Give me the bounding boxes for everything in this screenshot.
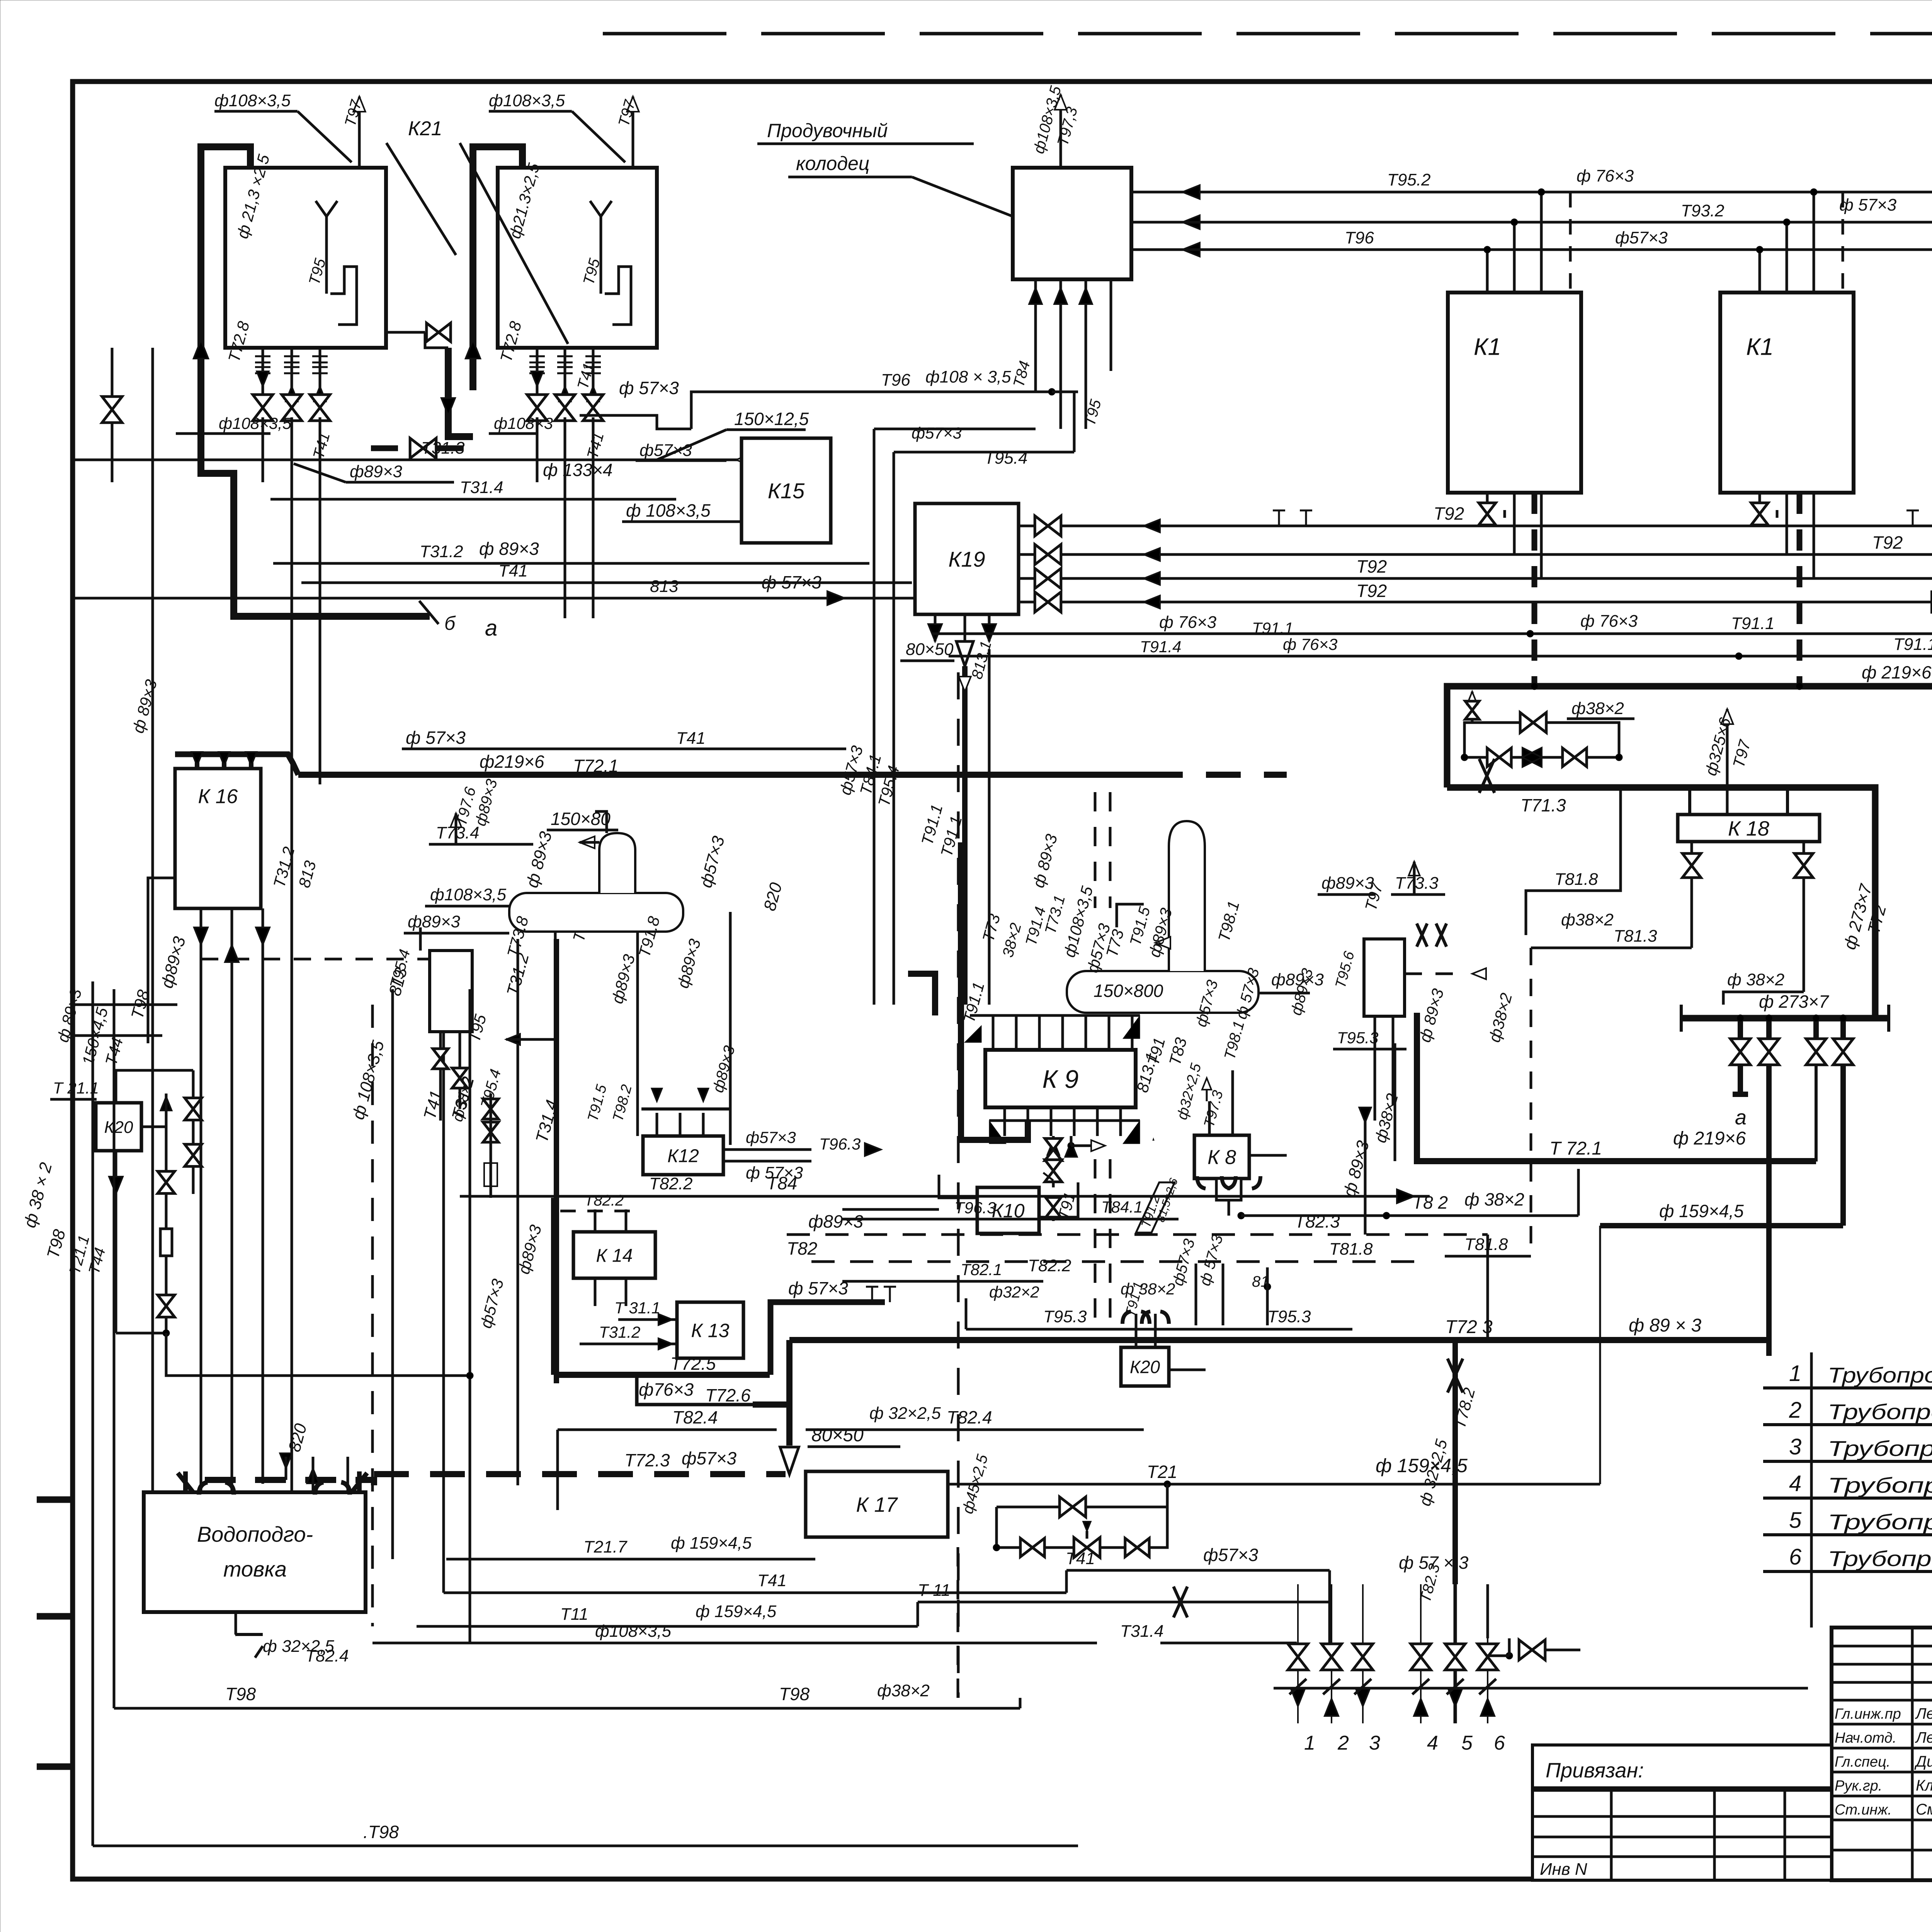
svg-text:3: 3 — [1369, 1732, 1380, 1754]
well feed — [1085, 279, 1087, 429]
svg-text:Т91.4: Т91.4 — [1140, 638, 1181, 656]
svg-text:ф89×3: ф89×3 — [350, 462, 402, 481]
svg-text:ф108×3: ф108×3 — [494, 414, 553, 432]
svg-text:5: 5 — [1789, 1508, 1802, 1533]
bypass K17 top — [997, 1506, 1167, 1509]
thick pipe f21.3 left boiler — [201, 147, 430, 616]
leader f108 — [622, 520, 742, 523]
box vodopodgotovka — [144, 1492, 366, 1612]
vertical T41 — [442, 989, 445, 1593]
K18 right riser — [1786, 787, 1789, 815]
svg-text:Т92: Т92 — [1356, 556, 1387, 577]
svg-text:Водоподго-: Водоподго- — [197, 1522, 313, 1546]
central dashed vertical — [957, 672, 960, 1698]
svg-text:Нач.отд.: Нач.отд. — [1835, 1730, 1896, 1746]
valve column under K9 — [1052, 1136, 1055, 1187]
header T92 #1 — [1019, 525, 1932, 527]
thick vertical to funnel — [786, 1340, 793, 1446]
svg-text:Смирнова: Смирнова — [1916, 1801, 1932, 1818]
dashed drop — [1530, 948, 1532, 1256]
legend row 4 underline — [1763, 1497, 1932, 1500]
boiler1 drop — [319, 348, 321, 417]
svg-text:Т91.1: Т91.1 — [1893, 635, 1932, 654]
left vertical — [113, 989, 116, 1708]
svg-text:Трубопровод циркуляции горяч: Трубопровод циркуляции горячего водоснаб… — [1828, 1400, 1932, 1424]
svg-text:Т96: Т96 — [881, 371, 910, 389]
svg-text:Т95.2: Т95.2 — [1387, 170, 1431, 189]
vertical T31.2 — [469, 989, 471, 1643]
box K17 — [806, 1471, 948, 1537]
thick T72.5 — [554, 1372, 770, 1378]
legend row 3 underline — [1763, 1460, 1932, 1463]
thick line to K18 — [1447, 784, 1787, 791]
thick drop f273x7 T72 — [1787, 787, 1875, 1018]
svg-text:Т31.4: Т31.4 — [460, 478, 503, 497]
svg-text:Т82.4: Т82.4 — [947, 1407, 992, 1427]
svg-text:Клоков: Клоков — [1916, 1777, 1932, 1794]
svg-text:ф 159×4,5: ф 159×4,5 — [1659, 1201, 1744, 1221]
svg-text:Продувочный: Продувочный — [767, 120, 888, 141]
fold mark — [37, 1764, 73, 1770]
boiler1 drop — [291, 348, 293, 417]
svg-text:Ст.инж.: Ст.инж. — [1835, 1802, 1892, 1818]
box K19 — [915, 503, 1019, 614]
K9 bottom stub — [1096, 1107, 1099, 1136]
svg-text:Трубопровод горячей воды к: Трубопровод горячей воды к потребителю ф… — [1828, 1363, 1932, 1387]
svg-text:Дигин: Дигин — [1914, 1753, 1932, 1770]
deaerator tank left (150x80) — [509, 893, 683, 932]
svg-text:ф 76×3: ф 76×3 — [1159, 613, 1217, 632]
bypass loop bottom — [1464, 756, 1619, 759]
svg-text:Рук.гр.: Рук.гр. — [1835, 1778, 1882, 1794]
svg-text:ф 57 × 3: ф 57 × 3 — [1399, 1553, 1469, 1573]
svg-text:1: 1 — [1304, 1732, 1315, 1754]
svg-text:К 14: К 14 — [596, 1245, 633, 1266]
svg-text:Т84.1: Т84.1 — [1101, 1198, 1143, 1216]
svg-text:Т 11: Т 11 — [918, 1581, 951, 1600]
svg-text:Т 72.1: Т 72.1 — [1549, 1138, 1602, 1159]
svg-text:ф108 × 3,5: ф108 × 3,5 — [925, 367, 1011, 386]
left stub to K16 — [73, 1003, 177, 1006]
svg-text:К15: К15 — [768, 479, 805, 503]
K9 bottom stub — [1050, 1107, 1053, 1136]
svg-text:ф 76×3: ф 76×3 — [1580, 612, 1638, 631]
riser 6 — [1487, 1584, 1488, 1723]
svg-text:К 8: К 8 — [1207, 1146, 1236, 1169]
svg-text:Т93.2: Т93.2 — [1681, 201, 1725, 220]
riser 2 — [1331, 1584, 1332, 1723]
K16 top thick manifold — [175, 754, 298, 775]
svg-text:ф89×3: ф89×3 — [808, 1211, 863, 1231]
svg-text:К12: К12 — [667, 1146, 699, 1166]
line T82.1 — [842, 1280, 1043, 1283]
K1 dashed stub — [1569, 192, 1572, 293]
K9 bottom stub — [1073, 1107, 1076, 1136]
thick riser left of K13 — [551, 1198, 557, 1375]
link T72.6 — [637, 1375, 753, 1405]
K9 top stub — [1085, 1015, 1087, 1050]
vertical — [517, 939, 519, 1485]
svg-text:Т81.3: Т81.3 — [1614, 927, 1657, 946]
svg-text:813: 813 — [650, 577, 679, 596]
heat exchanger — [430, 951, 472, 1032]
svg-text:a: a — [1735, 1106, 1747, 1129]
svg-text:Т98: Т98 — [225, 1684, 256, 1704]
svg-text:ф108×3,5: ф108×3,5 — [595, 1622, 672, 1641]
box K10 — [977, 1187, 1039, 1233]
svg-text:Т82.4: Т82.4 — [672, 1407, 718, 1427]
svg-text:Т71.3: Т71.3 — [1520, 795, 1566, 815]
svg-text:Трубопровод обратной сетево: Трубопровод обратной сетевой воды ф 159×… — [1828, 1473, 1932, 1497]
vent line T97 — [358, 97, 361, 168]
svg-text:ф 38×2: ф 38×2 — [1727, 970, 1784, 989]
dashed pipe — [371, 446, 410, 451]
svg-text:Т95.3: Т95.3 — [1337, 1029, 1378, 1047]
header T93.2 — [1131, 221, 1932, 224]
box K12 — [643, 1136, 723, 1175]
vertical T95 — [893, 452, 895, 1005]
svg-text:а: а — [485, 616, 497, 641]
K9 bottom stub — [1003, 1107, 1006, 1136]
svg-text:Т92: Т92 — [1872, 532, 1903, 553]
line T31.4 f108 — [372, 1642, 1097, 1645]
line T31.3 — [247, 459, 777, 461]
vertical f89x3 down — [1364, 1113, 1367, 1235]
svg-text:Т96.3: Т96.3 — [819, 1135, 861, 1153]
K1 bottom stub — [1486, 493, 1489, 526]
dashed pair upper — [1094, 792, 1097, 908]
svg-text:ф 159×4,5: ф 159×4,5 — [671, 1534, 752, 1553]
tank drop — [554, 932, 557, 1121]
K9 top stub — [1038, 1015, 1041, 1050]
gauge pipe — [330, 267, 357, 325]
svg-text:3: 3 — [1789, 1434, 1801, 1459]
drop to T72.1 — [1815, 1065, 1818, 1162]
thick riser 5 up — [1452, 1337, 1458, 1584]
K9 top stub — [1108, 1015, 1111, 1050]
svg-text:Т82.2: Т82.2 — [1028, 1256, 1071, 1275]
svg-text:ф 89 × 3: ф 89 × 3 — [1629, 1315, 1702, 1336]
svg-text:Т73.3: Т73.3 — [1395, 874, 1439, 893]
riser 1 — [1297, 1584, 1299, 1723]
svg-text:ф 38×2: ф 38×2 — [1464, 1189, 1524, 1209]
svg-text:Т31.2: Т31.2 — [599, 1323, 640, 1341]
well feed — [1034, 279, 1037, 392]
svg-text:К 18: К 18 — [1728, 817, 1769, 840]
svg-text:Т31.2: Т31.2 — [420, 542, 463, 561]
svg-text:Т82.3: Т82.3 — [1294, 1211, 1340, 1231]
thick pipe f21.3 right boiler — [473, 147, 522, 390]
svg-text:ф32×2: ф32×2 — [989, 1283, 1039, 1301]
svg-text:ф 38×2: ф 38×2 — [1121, 1280, 1175, 1298]
box K16 — [175, 769, 261, 908]
riser 5 — [1454, 1584, 1457, 1723]
line T84.1 — [842, 1218, 1179, 1221]
svg-text:колодец: колодец — [796, 153, 869, 174]
dash-dot vertical f108 — [371, 1005, 374, 1626]
svg-text:К 13: К 13 — [691, 1320, 730, 1342]
svg-text:Т91.1: Т91.1 — [1252, 619, 1293, 637]
K9 top stub — [1015, 1015, 1018, 1050]
K9 bottom rail — [989, 1119, 1140, 1122]
level tube — [600, 216, 602, 294]
svg-text:ф 57×3: ф 57×3 — [746, 1163, 803, 1182]
level tube — [325, 216, 328, 294]
svg-text:Т21.7: Т21.7 — [583, 1537, 628, 1556]
svg-text:Т92: Т92 — [1356, 581, 1387, 601]
vertical — [391, 989, 394, 1559]
dashed vertical — [957, 1537, 959, 1698]
svg-text:К20: К20 — [1130, 1357, 1160, 1377]
K9 bottom stub — [1027, 1107, 1029, 1136]
svg-text:ф 219×6: ф 219×6 — [1862, 662, 1932, 682]
K9 top stub — [1061, 1015, 1064, 1050]
svg-text:ф108×3,5: ф108×3,5 — [430, 885, 507, 904]
K9 top rail — [970, 1014, 1140, 1017]
well feed — [1060, 279, 1062, 429]
svg-text:ф76×3: ф76×3 — [639, 1379, 694, 1400]
drop to T72.3 — [1766, 1065, 1772, 1356]
svg-text:Т41: Т41 — [498, 561, 528, 580]
thick vertical — [554, 939, 559, 1383]
svg-text:6: 6 — [1789, 1544, 1802, 1570]
thick vertical B13.1 — [962, 666, 968, 1005]
svg-text:Т31.3: Т31.3 — [421, 439, 465, 457]
svg-text:К20: К20 — [104, 1118, 133, 1137]
svg-text:Т82.1: Т82.1 — [961, 1260, 1002, 1279]
bypass K17 bottom — [997, 1484, 1167, 1548]
svg-text:К1: К1 — [1746, 333, 1774, 360]
svg-text:Т92: Т92 — [1434, 503, 1464, 524]
deaerator tank right (150x800) — [1067, 971, 1259, 1013]
leader to right boiler — [460, 143, 568, 344]
box K14 — [573, 1232, 655, 1278]
header T92 #2 — [1019, 553, 1932, 556]
svg-text:ф 76×3: ф 76×3 — [1577, 167, 1634, 185]
svg-text:Трубопровод прямой сетевой: Трубопровод прямой сетевой воды ф 159×4,… — [1828, 1436, 1932, 1461]
legend row 2 underline — [1763, 1423, 1932, 1426]
line T96 f108x3.5 — [691, 392, 1052, 429]
line T11 f159 — [417, 1625, 918, 1628]
svg-text:150×800: 150×800 — [1094, 981, 1163, 1001]
thick dashed above vodopodgotovka — [255, 1480, 374, 1485]
thick T72.1 — [1417, 1013, 1816, 1161]
svg-text:ф 159×4,5: ф 159×4,5 — [696, 1602, 777, 1621]
left stub 2 — [73, 1034, 162, 1037]
K18 vent f325x6 — [1726, 709, 1729, 815]
dashed T82/T81.8 — [811, 1260, 1430, 1263]
svg-text:К1: К1 — [1474, 333, 1501, 360]
box K9 — [985, 1050, 1136, 1107]
svg-text:Т82.2: Т82.2 — [584, 1192, 624, 1209]
svg-text:80×50: 80×50 — [906, 640, 954, 659]
heat exchanger right — [1364, 939, 1405, 1016]
svg-text:б: б — [444, 612, 456, 634]
svg-text:Т82: Т82 — [787, 1238, 817, 1259]
title block — [1832, 1628, 1932, 1880]
legend row 6 underline — [1763, 1570, 1932, 1573]
K1 dashed stub — [1842, 192, 1844, 293]
legend separator vertical — [1810, 1352, 1813, 1628]
svg-text:ф89×3: ф89×3 — [408, 912, 460, 931]
svg-text:К 16: К 16 — [198, 786, 238, 808]
left vertical — [111, 348, 114, 482]
svg-text:ф57×3: ф57×3 — [1203, 1545, 1258, 1565]
K18 left riser — [1688, 787, 1691, 815]
line T84 — [460, 1195, 1430, 1198]
vent line T97 — [632, 97, 634, 168]
svg-text:ф 57×3: ф 57×3 — [788, 1278, 848, 1298]
fold mark — [37, 1613, 73, 1620]
header T91.1 lower — [949, 655, 1932, 658]
box K18 — [1678, 815, 1820, 842]
dashed f89x3 T82.3 — [787, 1233, 1488, 1236]
svg-text:ф108×3,5: ф108×3,5 — [489, 91, 565, 110]
svg-text:Т72.3: Т72.3 — [624, 1450, 670, 1470]
header T95.2 — [1131, 191, 1932, 194]
K18 stub to T81.3 — [1690, 842, 1693, 948]
header T96 — [1131, 248, 1932, 251]
riser 3 — [1362, 1584, 1364, 1723]
svg-text:Т72.6: Т72.6 — [705, 1385, 751, 1405]
column on tank — [599, 833, 635, 893]
svg-text:ф 219×6: ф 219×6 — [1673, 1128, 1746, 1149]
boiler K1 #2 — [1720, 293, 1854, 493]
svg-text:ф 108×3,5: ф 108×3,5 — [626, 500, 711, 520]
header T92 #4 — [1019, 601, 1932, 604]
leader to left boiler — [386, 143, 456, 255]
box K15 — [742, 438, 831, 543]
svg-text:Т82.4: Т82.4 — [305, 1646, 349, 1665]
svg-text:ф 57×3: ф 57×3 — [762, 572, 821, 592]
svg-text:Т21: Т21 — [1147, 1462, 1177, 1482]
boiler2 drop — [592, 348, 595, 417]
box K8 — [1194, 1135, 1249, 1179]
svg-text:Т41: Т41 — [676, 729, 706, 748]
svg-text:ф57×3: ф57×3 — [912, 424, 962, 442]
line f57 T41 — [402, 748, 634, 750]
svg-text:ф38×2: ф38×2 — [877, 1681, 930, 1700]
svg-text:ф57×3: ф57×3 — [1615, 228, 1668, 247]
svg-text:ф 133×4: ф 133×4 — [543, 460, 612, 480]
line T95.3 — [966, 1328, 1352, 1331]
svg-text:Лепендин: Лепендин — [1915, 1729, 1932, 1746]
gauge pipe — [605, 267, 631, 325]
svg-text:ф108×3,5: ф108×3,5 — [219, 414, 292, 432]
svg-text:ф108×3,5: ф108×3,5 — [214, 91, 291, 110]
svg-text:80×50: 80×50 — [811, 1425, 864, 1446]
well vent — [1060, 95, 1062, 168]
box K20 left — [96, 1103, 141, 1151]
K9 bottom stub — [1119, 1107, 1122, 1136]
svg-text:Т96.3: Т96.3 — [954, 1199, 996, 1217]
thick T72.1 left part — [298, 772, 1148, 778]
K1 top stub — [1759, 250, 1761, 293]
svg-text:К 9: К 9 — [1043, 1065, 1079, 1093]
svg-text:Т81.8: Т81.8 — [1329, 1240, 1373, 1259]
svg-text:Гл.инж.пр: Гл.инж.пр — [1835, 1706, 1901, 1722]
svg-text:Т95.4: Т95.4 — [984, 449, 1028, 468]
svg-text:Т72 3: Т72 3 — [1445, 1317, 1493, 1337]
svg-text:Трубопровод конденсата с пр: Трубопровод конденсата с производства ф … — [1828, 1546, 1932, 1571]
svg-text:товка: товка — [223, 1557, 287, 1581]
svg-text:Т 31.1: Т 31.1 — [614, 1299, 660, 1317]
privyazan box — [1532, 1745, 1832, 1880]
thick U pipe — [961, 842, 1028, 1140]
svg-text:Инв N: Инв N — [1540, 1860, 1587, 1879]
line T41 — [444, 1592, 1066, 1594]
line T81.3 — [1531, 947, 1692, 949]
boiler K1 #1 — [1448, 293, 1581, 493]
long vertical — [200, 989, 202, 1592]
svg-text:150×12,5: 150×12,5 — [734, 409, 809, 429]
K18 stub to f38x2 — [1803, 842, 1805, 992]
svg-text:6: 6 — [1494, 1732, 1505, 1754]
collector line — [1274, 1687, 1808, 1690]
box K20 small — [1121, 1347, 1169, 1386]
svg-text:Т11: Т11 — [560, 1605, 588, 1624]
blow-off well box (продувочный колодец) — [1013, 168, 1131, 279]
svg-text:Левитан: Левитан — [1915, 1705, 1932, 1722]
svg-text:5: 5 — [1461, 1732, 1473, 1754]
svg-text:.Т98: .Т98 — [363, 1822, 399, 1842]
long vertical f89x3 — [151, 348, 154, 1584]
svg-text:ф 57×3: ф 57×3 — [406, 728, 466, 748]
line T98 bottom — [93, 1845, 1078, 1847]
line T98 — [114, 1707, 1020, 1710]
K9 top stub — [1131, 1015, 1134, 1050]
svg-text:Трубопровод пара на произво: Трубопровод пара на производство ф 159×4… — [1828, 1510, 1932, 1534]
svg-text:Т95.3: Т95.3 — [1043, 1307, 1087, 1326]
svg-text:2: 2 — [1337, 1732, 1349, 1754]
header T92 #3 — [1019, 577, 1932, 580]
thick f89x3 T72-3 long — [789, 1337, 1769, 1343]
line f133x4 to K15 — [73, 459, 709, 461]
svg-text:Т91.1: Т91.1 — [1731, 614, 1775, 633]
svg-text:Т72.1: Т72.1 — [573, 756, 619, 776]
dashed under K16 — [201, 958, 470, 961]
line f159x4.5 — [1600, 1223, 1843, 1228]
thick dashed drop from K1 — [1532, 493, 1537, 686]
svg-text:Т82.2: Т82.2 — [649, 1174, 693, 1193]
svg-text:4: 4 — [1427, 1732, 1438, 1754]
line B13 f57x3 — [73, 597, 915, 600]
thick link — [448, 348, 473, 437]
svg-text:4: 4 — [1789, 1471, 1801, 1496]
header T91.1 upper — [932, 633, 1932, 635]
line T81.8 — [1526, 787, 1621, 935]
line T31.4 — [270, 498, 676, 501]
boiler2 drop — [564, 348, 566, 417]
vertical T98 — [113, 1391, 116, 1708]
svg-text:Т96: Т96 — [1345, 228, 1374, 247]
vertical — [988, 649, 991, 1005]
X valve T71.3 — [1479, 759, 1495, 793]
svg-text:К19: К19 — [948, 547, 985, 571]
line T82.4 — [558, 1429, 777, 1431]
svg-text:Т98: Т98 — [779, 1684, 810, 1704]
svg-text:ф57×3: ф57×3 — [682, 1448, 736, 1468]
K1 top stub — [1486, 250, 1489, 293]
svg-text:Т41: Т41 — [757, 1571, 787, 1590]
manifold thick — [1681, 1015, 1889, 1022]
svg-text:ф38×2: ф38×2 — [1571, 699, 1624, 718]
svg-text:К21: К21 — [408, 117, 442, 140]
line T21 f159 — [948, 1483, 1600, 1486]
thin vertical f38 — [1394, 1043, 1396, 1161]
drop to f159 — [1840, 1065, 1846, 1226]
long vertical 813 — [291, 618, 293, 1592]
